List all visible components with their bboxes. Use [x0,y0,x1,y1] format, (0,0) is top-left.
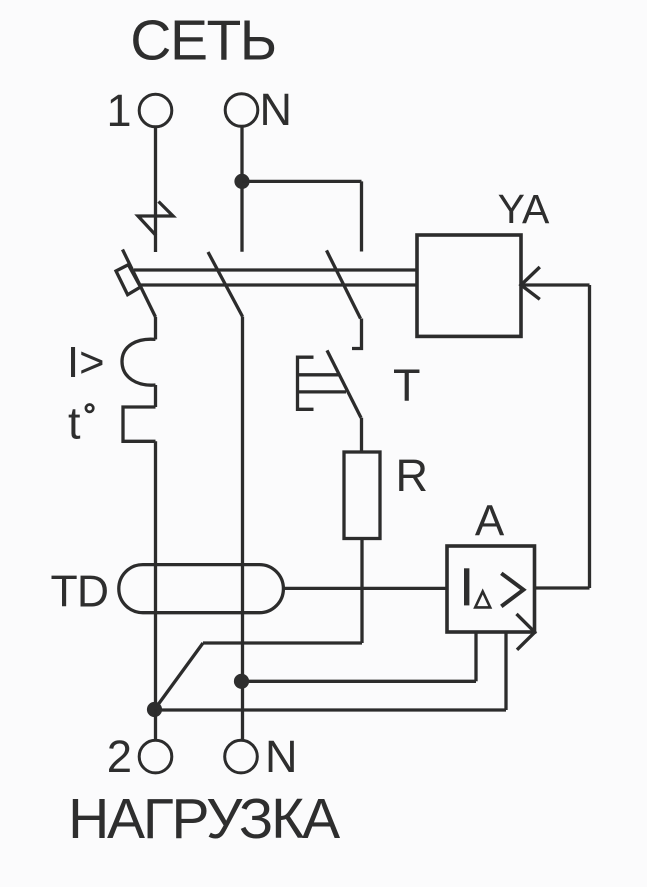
svg-text:T: T [393,360,421,411]
wire blade to resistor [360,418,363,452]
svg-text:TD: TD [51,568,109,617]
node pole1 junction bottom [147,702,162,717]
wire into A box right [535,586,590,589]
svg-text:YA: YA [498,186,550,232]
wire test return diagonal [155,643,204,710]
node N junction bottom [234,674,249,689]
svg-text:N: N [265,731,298,782]
wire test branch vertical [360,181,363,251]
test button T: fixed contact stub [352,319,362,349]
svg-text:A: A [475,497,505,546]
detector A box [447,546,535,632]
wire junction to terminal 2 [154,710,157,741]
wire A leg to pole1 junction [155,708,507,711]
svg-text:N: N [260,84,293,135]
wire A bottom right leg [504,632,507,710]
test button T: actuator link 2 [298,390,347,393]
wire pole N down through TD [241,317,244,741]
linkage bar top line [134,268,417,271]
wire pole1 pivot to I> [154,317,157,339]
wire YA trip vertical [588,285,591,588]
thermal release bump [123,407,156,441]
resistor R [344,452,380,539]
arrowhead into YA [521,267,540,299]
svg-text:R: R [396,450,429,501]
wire N from terminal down [240,126,243,252]
wire YA trip from A: horizontal [521,283,590,286]
contact blade pole 1 [123,250,156,318]
wire test branch horizontal [242,180,362,183]
svg-text:2: 2 [107,731,132,782]
terminal N top [225,94,258,127]
test button T: blade [327,350,361,417]
mechanism handle square [116,265,141,295]
breaker trip flash [138,202,173,236]
test button T: bracket [298,357,314,409]
contact blade pole N [208,252,243,317]
contact blade test pole [327,250,361,318]
wire test return horizontal [203,641,362,644]
degree mark of t° [86,405,93,412]
differential transformer TD [119,565,284,613]
svg-text:1: 1 [106,85,131,136]
wire TD to A box [283,587,447,590]
node N junction top [234,174,249,189]
symbol I inside A [464,568,469,605]
arrow at A corner [517,614,535,650]
wire resistor down [360,539,363,644]
wire A bottom left leg [474,632,477,681]
symbol > inside A [501,573,523,606]
overcurrent release I> bump [122,339,156,385]
svg-text:НАГРУЗКА: НАГРУЗКА [68,787,340,851]
terminal 2 [139,740,172,773]
wire pole1 from terminal 1 down [154,127,157,252]
svg-text:I>: I> [67,339,105,387]
terminal 1 [139,94,172,127]
symbol delta inside A [475,591,490,607]
wire between releases [154,385,157,407]
test button T: actuator link 1 [298,373,340,376]
terminal N bottom [225,740,258,773]
wire pole1 down through TD [154,441,157,709]
svg-text:t: t [68,398,81,449]
linkage bar bottom line [140,283,417,286]
wire A leg to N junction [242,680,477,683]
svg-text:СЕТЬ: СЕТЬ [130,9,275,73]
solenoid YA box [417,235,521,336]
